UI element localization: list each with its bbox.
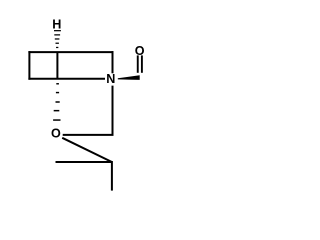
ring bond A-B-C (top edge)	[28, 51, 113, 53]
svg-text:H: H	[52, 18, 61, 32]
bond O-CH(iPr) diagonal + methyl left	[56, 138, 112, 162]
ring bond E-D-N (bottom edge)	[28, 78, 105, 80]
methyl down	[111, 161, 113, 191]
ring bond C-N (right edge)	[112, 51, 114, 73]
C=O double bond	[137, 55, 139, 72]
svg-text:O: O	[135, 44, 145, 58]
bond N-CH2 and CH2-O (vertical + horizontal)	[63, 86, 113, 135]
hash wedge B-H	[54, 30, 61, 48]
ring bond E-A (left edge)	[28, 51, 30, 80]
ring bond B-D (divider)	[56, 52, 58, 79]
bold wedge N-CHO	[118, 75, 140, 80]
svg-text:O: O	[51, 127, 61, 141]
svg-text:N: N	[106, 72, 115, 86]
hash wedge D-O	[53, 83, 60, 121]
